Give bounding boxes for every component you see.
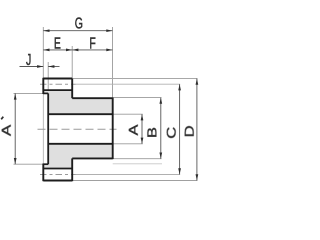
dimension F left arrow: [72, 49, 78, 52]
bore extension top (to A): [113, 113, 143, 115]
dimension D bottom arrow: [196, 174, 199, 180]
dimension E left arrow: [43, 49, 49, 52]
part outline: tip top edge: [43, 78, 72, 80]
part outline: left face lower: [42, 164, 44, 182]
A' circle extension bottom (left): [14, 163, 44, 165]
root line top: [43, 89, 72, 91]
dimension B line: [160, 98, 162, 159]
dimension J right tail line: [48, 66, 59, 68]
svg-text:G: G: [75, 14, 83, 32]
dimension A' top arrow: [14, 93, 17, 99]
svg-text:J: J: [26, 51, 31, 69]
hub extension bottom (to B): [113, 158, 162, 160]
hub right face: [112, 98, 114, 160]
hub top edge: [72, 97, 113, 99]
dimension J left tail line: [20, 66, 44, 68]
part outline: left face upper: [42, 78, 44, 94]
svg-text:A: A: [127, 124, 141, 135]
gear body section fill (top half): [43, 90, 112, 114]
dimension J left arrow (points right): [37, 65, 43, 68]
bore centerline (dash-dot): [38, 128, 117, 130]
extension line gear right face (x=72.2): [71, 46, 73, 79]
svg-text:F: F: [89, 34, 95, 52]
A' circle extension top (left): [14, 92, 44, 94]
part outline: tip bottom edge: [43, 180, 72, 182]
tip line extension bottom (to D): [72, 180, 197, 182]
gear right face upper: [71, 79, 73, 99]
dimension D top arrow: [196, 79, 199, 85]
svg-text:E: E: [54, 34, 61, 52]
gear right face lower: [71, 158, 73, 181]
faint A' extension bottom right: [113, 163, 162, 165]
dimension F right arrow: [106, 49, 112, 52]
pitch line top (dash-dot): [40, 83, 76, 85]
pitch line extension top (to C): [76, 83, 181, 85]
tip line extension top (to D): [72, 78, 197, 80]
dimension C top arrow: [178, 84, 181, 90]
svg-text:B: B: [146, 127, 160, 138]
dimension A bottom arrow: [141, 138, 144, 144]
bore extension bottom (to A): [113, 143, 143, 145]
extension line left face (x=43.3, through): [42, 27, 44, 79]
dimension J right arrow (points left): [48, 65, 54, 68]
gear body section fill (bottom half): [43, 144, 112, 169]
root line bottom: [43, 168, 72, 170]
dimension D line: [196, 79, 198, 181]
dimension G line: [43, 30, 112, 32]
bore top line: [48, 113, 113, 115]
extension line recess face (x=48.2): [47, 62, 49, 90]
extension line hub right face (x=112.5): [112, 27, 114, 98]
dimension A line: [141, 114, 143, 144]
pitch line bottom (dash-dot): [40, 174, 76, 176]
hub bottom edge: [72, 157, 113, 159]
dimension B top arrow: [159, 98, 162, 104]
svg-text:C: C: [165, 126, 179, 138]
dimension F line: [72, 49, 112, 51]
pitch line extension bottom (to C): [76, 174, 181, 176]
A' step edge top: [43, 92, 48, 94]
recess face line: [47, 93, 49, 164]
svg-text:A: A: [0, 124, 14, 136]
dimension B bottom arrow: [159, 153, 162, 159]
dimension A' line: [14, 93, 16, 164]
dimension C bottom arrow: [178, 168, 181, 174]
bore bottom line: [48, 143, 113, 145]
svg-text:D: D: [183, 125, 197, 137]
dimension E line: [43, 49, 72, 51]
dimension C line: [179, 84, 181, 174]
prime mark of A': [1, 117, 3, 120]
dimension A top arrow: [141, 114, 144, 120]
hub extension top (to B): [113, 97, 162, 99]
dimension A' bottom arrow: [14, 158, 17, 164]
A' step edge bottom: [43, 163, 48, 165]
dimension G right arrow: [106, 29, 112, 32]
dimension E right arrow: [66, 49, 72, 52]
dimension G left arrow: [43, 29, 49, 32]
